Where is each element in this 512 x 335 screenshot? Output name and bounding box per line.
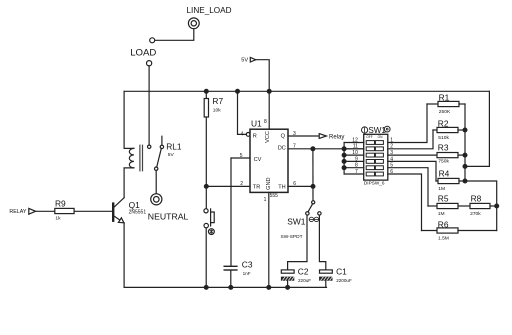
- relay core lines: [140, 145, 143, 171]
- pin 3 wire and number: [288, 131, 319, 137]
- wire pin7 down to SPDT: [312, 149, 314, 201]
- terminal LINE_LOAD: [188, 18, 199, 29]
- junction on rail at pin4 branch: [236, 89, 240, 93]
- svg-text:SW1: SW1: [287, 217, 305, 227]
- pin label R: [253, 133, 257, 139]
- svg-text:7: 7: [355, 169, 358, 175]
- svg-text:R: R: [253, 133, 257, 139]
- svg-text:R6: R6: [438, 219, 449, 229]
- node NEUTRAL label: [148, 212, 189, 222]
- junction bus row5: [342, 166, 346, 170]
- svg-text:10k: 10k: [213, 108, 221, 114]
- relay RL1 contact bottom: [155, 167, 158, 170]
- pin 2 wire and number: [206, 181, 250, 187]
- DIP switch elements: [366, 141, 383, 176]
- DIP left pin numbers: [352, 137, 358, 175]
- capacitor C1: [319, 267, 352, 288]
- power 5V label: [241, 58, 248, 64]
- wire top supply rail: [124, 90, 489, 92]
- resistor R7: [204, 91, 223, 117]
- svg-text:8: 8: [264, 119, 267, 125]
- svg-text:8: 8: [355, 163, 358, 169]
- label 555: [270, 193, 279, 199]
- pin label CV: [254, 157, 262, 163]
- pin 7 wire and number: [288, 144, 364, 150]
- pin 5 wire and number: [231, 153, 250, 159]
- svg-text:250K: 250K: [439, 109, 451, 115]
- transistor Q1: [112, 198, 146, 223]
- svg-text:R8: R8: [471, 194, 482, 204]
- wire pin4: [241, 132, 244, 138]
- svg-text:VCC: VCC: [265, 131, 271, 143]
- svg-text:7: 7: [293, 144, 296, 150]
- wire R4 junction to right vertical: [465, 181, 497, 231]
- svg-text:R5: R5: [438, 194, 449, 204]
- svg-text:11: 11: [353, 144, 358, 150]
- resistor R3: [437, 143, 465, 165]
- svg-text:1.5M: 1.5M: [438, 236, 449, 242]
- svg-text:RELAY: RELAY: [9, 209, 26, 215]
- svg-text:270k: 270k: [470, 211, 481, 217]
- junction ground at button: [204, 286, 208, 290]
- junction on rail at R7: [204, 89, 208, 93]
- junction ground at C3: [229, 286, 233, 290]
- DIP left bus: [343, 143, 345, 175]
- wire ground rail: [124, 286, 326, 288]
- svg-text:Relay: Relay: [329, 134, 344, 140]
- svg-text:DC: DC: [278, 146, 286, 152]
- pin label TH: [278, 184, 285, 190]
- node LINE_LOAD label: [187, 6, 232, 15]
- junction bus row3: [342, 153, 346, 157]
- node LOAD label: [130, 48, 156, 59]
- relay RL1 switch contact top: [148, 145, 151, 148]
- wire LINE_LOAD to LOAD terminal: [155, 29, 194, 41]
- wire R9 to base: [74, 210, 112, 212]
- svg-text:3: 3: [293, 131, 296, 137]
- svg-text:U1: U1: [251, 118, 262, 128]
- svg-text:OFF: OFF: [366, 135, 372, 139]
- junction bus row4: [342, 160, 346, 164]
- svg-text:TR: TR: [253, 184, 260, 190]
- op-amp U1 555 box: [250, 129, 288, 192]
- label DIPSW_6: [364, 181, 385, 186]
- power 5V arrow: [250, 57, 255, 62]
- svg-text:555: 555: [270, 193, 279, 199]
- svg-text:12: 12: [352, 137, 358, 143]
- wire SPDT left to C2: [288, 215, 307, 270]
- junction on rail at pin8 branch: [267, 89, 271, 93]
- label RL1: [166, 141, 182, 158]
- svg-text:510k: 510k: [438, 135, 449, 141]
- junction TR wire: [204, 185, 208, 189]
- svg-text:4: 4: [241, 132, 244, 138]
- resistor R8: [470, 194, 497, 218]
- wire R7 to button: [205, 117, 207, 209]
- svg-text:TH: TH: [278, 184, 285, 190]
- svg-text:750k: 750k: [438, 159, 449, 165]
- wire CV to C3: [230, 158, 232, 266]
- switch SW1 DIP label: [362, 126, 391, 135]
- junction bus R3: [463, 153, 467, 157]
- svg-text:SW-SPDT: SW-SPDT: [281, 234, 303, 240]
- junction ground at pin1: [267, 286, 271, 290]
- svg-text:1M: 1M: [438, 211, 445, 217]
- svg-text:CV: CV: [254, 157, 262, 163]
- svg-text:SW1: SW1: [368, 126, 386, 135]
- resistor R2: [433, 118, 465, 140]
- pin number 8: [264, 119, 267, 125]
- port Relay output: [319, 134, 344, 141]
- wire rail right edge down: [465, 91, 489, 166]
- relay coil RL1: [129, 148, 134, 168]
- wire pin8 VCC: [268, 91, 270, 129]
- wire pin4 branch: [238, 91, 247, 134]
- svg-text:9: 9: [355, 156, 358, 162]
- wire RELAY port to R9: [36, 210, 55, 212]
- switch SW1 SPDT: [281, 201, 322, 241]
- svg-text:2: 2: [240, 181, 243, 187]
- svg-text:R1: R1: [439, 92, 450, 102]
- svg-text:1: 1: [264, 197, 267, 203]
- label U1: [251, 118, 262, 128]
- pin 6 wire and number: [288, 181, 313, 187]
- wire button to ground: [205, 228, 207, 288]
- svg-text:1nF: 1nF: [243, 271, 251, 276]
- svg-text:2N5551: 2N5551: [129, 210, 147, 216]
- DIP right pin numbers: [390, 137, 393, 175]
- svg-text:NEUTRAL: NEUTRAL: [148, 212, 189, 222]
- svg-text:LOAD: LOAD: [130, 48, 156, 59]
- junction pin7: [311, 147, 315, 151]
- svg-text:5V: 5V: [168, 152, 175, 158]
- svg-text:R4: R4: [439, 169, 450, 179]
- svg-text:R9: R9: [55, 199, 66, 209]
- wire relay to NEUTRAL: [155, 170, 157, 193]
- wire coil bottom to collector: [124, 168, 134, 198]
- junction bus rail branch: [463, 165, 467, 169]
- junction bus R2: [463, 128, 467, 132]
- svg-text:C2: C2: [298, 267, 309, 277]
- relay RL1 lever: [157, 149, 162, 168]
- wire emitter to ground rail: [123, 223, 125, 288]
- pin label GND rotated: [266, 177, 272, 189]
- svg-text:6: 6: [293, 181, 296, 187]
- svg-text:R7: R7: [212, 96, 223, 106]
- svg-text:ON: ON: [378, 135, 383, 139]
- svg-text:5V: 5V: [241, 58, 248, 64]
- resistor R4: [436, 169, 465, 193]
- capacitor C3: [224, 260, 253, 288]
- switch SW1 DIP body: [364, 134, 388, 180]
- junction dip bus row2: [342, 147, 346, 151]
- pin label VCC rotated: [265, 131, 271, 143]
- svg-text:1M: 1M: [438, 186, 445, 192]
- svg-text:LINE_LOAD: LINE_LOAD: [187, 6, 232, 15]
- svg-text:Q: Q: [281, 133, 286, 139]
- relay RL1 pole stub: [160, 136, 163, 148]
- svg-text:5: 5: [240, 153, 243, 159]
- svg-text:DIPSW_6: DIPSW_6: [364, 181, 385, 186]
- svg-text:C3: C3: [242, 260, 253, 270]
- junction bus R4: [463, 179, 467, 183]
- junction ground at C2: [286, 286, 290, 290]
- pin label DC: [278, 146, 286, 152]
- svg-text:RL1: RL1: [166, 141, 182, 151]
- svg-text:C1: C1: [336, 267, 347, 277]
- DIP left pin wires: [344, 143, 364, 175]
- junction pin6: [311, 185, 315, 189]
- capacitor C2: [281, 267, 311, 288]
- port RELAY input: [9, 208, 35, 215]
- terminal pin near LOAD: [150, 38, 155, 43]
- wire SPDT right to C1: [319, 215, 325, 270]
- svg-text:2200uF: 2200uF: [336, 278, 352, 283]
- wire LOAD to relay contact: [148, 66, 150, 145]
- pin label TR: [253, 184, 260, 190]
- resistor R5: [428, 194, 470, 218]
- terminal LOAD: [147, 61, 152, 66]
- svg-text:10: 10: [352, 150, 358, 156]
- svg-text:R3: R3: [438, 143, 449, 153]
- resistor R9: [55, 199, 74, 222]
- resistor R6: [422, 219, 497, 241]
- pin label Q: [281, 133, 286, 139]
- pin 1 wire and number: [264, 192, 269, 287]
- svg-text:R2: R2: [438, 118, 449, 128]
- junction R8 right: [495, 204, 499, 208]
- DIP right pin wires: [388, 104, 437, 231]
- terminal NEUTRAL: [151, 194, 162, 205]
- svg-text:GND: GND: [266, 177, 272, 189]
- svg-text:220uF: 220uF: [298, 278, 311, 283]
- right bus R1-R4: [464, 104, 466, 181]
- pin 4 bubble: [246, 133, 250, 137]
- wire left rail down to coil: [124, 91, 134, 148]
- wire 5V to rail: [256, 60, 270, 92]
- svg-text:1k: 1k: [55, 215, 61, 221]
- push button: [204, 209, 214, 235]
- resistor R1: [427, 92, 465, 115]
